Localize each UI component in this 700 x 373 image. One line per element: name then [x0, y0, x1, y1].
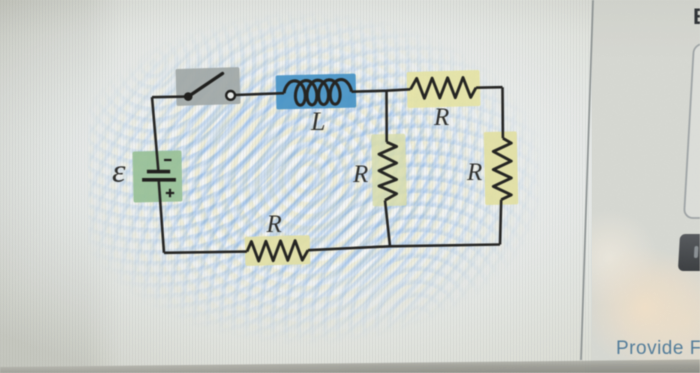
wire: middle branch bottom (resistor down to bottom junction): [385, 200, 390, 246]
switch S (lever): [188, 74, 222, 97]
battery plate negative (short): [147, 170, 170, 174]
resistor R middle zigzag: [379, 142, 397, 200]
wire: bottom (corner to bottom resistor): [164, 252, 247, 253]
wire: inductor to junction to top resistor: [352, 89, 411, 91]
highlight box: resistor R middle: [371, 134, 407, 207]
UI card outline top-right: [684, 44, 700, 218]
battery minus sign: [164, 159, 172, 161]
UI dark button: [678, 234, 700, 271]
wire: top-left from corner to switch: [152, 95, 188, 98]
highlight box: battery: [132, 150, 182, 202]
battery plate positive (long): [142, 178, 176, 182]
wire: right side top (resistor up to top-right corner): [501, 87, 504, 138]
bottom desk band: [0, 360, 700, 373]
UI dark button icon fragment: [694, 246, 699, 258]
resistor R top zigzag: [411, 78, 477, 99]
bottom desk band right-side darkening: [0, 360, 700, 373]
switch pivot dot: [184, 92, 193, 101]
highlight box: inductor L: [276, 74, 357, 110]
wire: bottom (resistor to junction to bottom-right corner): [308, 245, 500, 251]
highlight box: resistor R bottom: [245, 235, 311, 266]
wire: left side (corner down to battery top plate): [152, 97, 158, 170]
highlight box: resistor R right: [484, 131, 519, 205]
highlight box: switch: [175, 67, 240, 106]
moire ripple texture over content panel: [88, 8, 540, 348]
wire: right side bottom (corner up to right resistor): [500, 200, 501, 245]
wire: middle branch top (junction down to middle resistor): [385, 91, 388, 142]
wire: top right (resistor to corner): [476, 86, 503, 89]
UI divider line: [581, 0, 593, 360]
highlight box: resistor R top: [407, 70, 481, 108]
switch open contact circle: [226, 91, 235, 100]
right sidebar glows: [592, 0, 700, 373]
inductor L coil: [284, 80, 352, 106]
resistor R right zigzag: [493, 138, 511, 199]
wire: battery bottom plate down to bottom-left corner: [159, 182, 164, 253]
wire: switch to inductor: [235, 93, 284, 95]
resistor R bottom zigzag: [247, 241, 308, 261]
battery plus sign: [166, 189, 174, 197]
